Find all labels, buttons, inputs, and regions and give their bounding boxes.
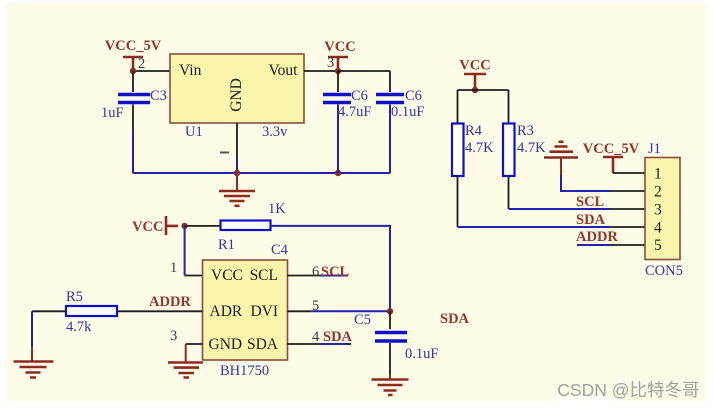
wire Vout to VCC node xyxy=(304,70,338,72)
junction at C6 bottom / rail xyxy=(335,170,341,176)
capacitor C6 (0.1uF) xyxy=(376,71,424,173)
svg-text:3: 3 xyxy=(654,201,662,218)
svg-text:CON5: CON5 xyxy=(645,263,683,279)
resistor R4 xyxy=(452,123,494,176)
svg-text:4: 4 xyxy=(312,329,320,345)
ground symbol (C5) xyxy=(372,374,409,395)
power flag VCC (above C6) xyxy=(324,39,355,69)
svg-text:1: 1 xyxy=(654,166,662,183)
svg-text:GND: GND xyxy=(209,336,243,353)
junction VCC / R4 R3 xyxy=(472,87,478,93)
svg-text:R3: R3 xyxy=(517,123,534,139)
wire VCC junction down to pin1 xyxy=(184,226,186,276)
svg-text:3.3v: 3.3v xyxy=(262,124,288,140)
svg-text:VCC: VCC xyxy=(324,39,355,55)
connector pins J1 (stubs) xyxy=(610,191,645,245)
ground symbol (rotated, at J1 pin2) xyxy=(544,142,610,191)
svg-text:3: 3 xyxy=(327,55,334,71)
wire U1 GND pin down xyxy=(236,123,238,158)
wire R3 bottom to J1 pin3 xyxy=(508,176,510,209)
svg-text:R4: R4 xyxy=(465,123,483,139)
svg-text:1K: 1K xyxy=(268,201,286,217)
power flag VCC (right section) xyxy=(459,58,490,89)
wire VCC to resistor tops xyxy=(458,90,509,123)
power flag VCC (BH1750 section, rotated) xyxy=(132,216,178,235)
svg-text:0.1uF: 0.1uF xyxy=(405,346,438,362)
connector J1 xyxy=(645,141,683,279)
svg-text:4.7K: 4.7K xyxy=(517,140,546,156)
pin 6 wire and SCL xyxy=(288,275,321,277)
svg-text:4.7uF: 4.7uF xyxy=(338,104,371,120)
svg-text:C4: C4 xyxy=(271,242,289,258)
svg-text:C6: C6 xyxy=(351,88,368,104)
wire R1 right to C5 junction xyxy=(271,226,391,311)
power flag VCC_5V (top left) xyxy=(105,38,162,69)
svg-text:VCC: VCC xyxy=(211,267,243,284)
junction C5 / DVI xyxy=(387,308,393,314)
wire R4 bottom to J1 pin4 xyxy=(457,176,459,227)
junction at U1 GND / rail xyxy=(234,170,240,176)
svg-text:ADDR: ADDR xyxy=(576,229,618,245)
wire stub ADDR to J1 pin5 xyxy=(577,244,610,246)
ground rail wire (bottom of regulator section) xyxy=(133,172,390,174)
svg-text:SCL: SCL xyxy=(576,194,605,210)
svg-text:DVI: DVI xyxy=(250,303,278,320)
svg-text:2: 2 xyxy=(654,183,662,200)
wire VCC_5V to Vin xyxy=(133,70,170,72)
wire VCC junction to R1 xyxy=(185,225,221,227)
svg-text:VCC_5V: VCC_5V xyxy=(105,38,162,54)
regulator U1 xyxy=(170,54,304,140)
svg-text:0.1uF: 0.1uF xyxy=(391,104,424,120)
svg-text:C5: C5 xyxy=(354,312,371,328)
svg-text:1uF: 1uF xyxy=(101,105,124,121)
capacitor C5 xyxy=(354,311,438,374)
resistor R1 xyxy=(218,201,286,253)
svg-text:ADDR: ADDR xyxy=(149,294,191,310)
svg-text:GND: GND xyxy=(228,78,245,112)
svg-text:Vout: Vout xyxy=(268,62,298,79)
resistor R5 xyxy=(66,289,117,335)
svg-text:ADR: ADR xyxy=(210,303,243,320)
svg-text:Vin: Vin xyxy=(179,62,202,79)
svg-text:3: 3 xyxy=(170,328,177,344)
resistor R3 xyxy=(503,123,546,176)
svg-text:4.7K: 4.7K xyxy=(465,140,494,156)
capacitor C3 xyxy=(101,71,167,173)
svg-text:U1: U1 xyxy=(185,124,203,140)
power flag VCC_5V (at J1 pin1) xyxy=(583,141,640,173)
junction VCC / R1 / U pin1 xyxy=(181,223,187,229)
svg-text:VCC_5V: VCC_5V xyxy=(583,141,640,157)
svg-text:R1: R1 xyxy=(218,237,235,253)
svg-text:2: 2 xyxy=(138,56,145,72)
ground symbol (BH1750 GND) xyxy=(168,363,203,378)
pin 4 wire and SDA xyxy=(288,343,321,345)
capacitor C6 (4.7uF) xyxy=(323,71,371,173)
svg-text:5: 5 xyxy=(654,237,662,254)
svg-text:6: 6 xyxy=(312,264,319,280)
svg-text:VCC: VCC xyxy=(459,58,490,74)
svg-text:SCL: SCL xyxy=(250,267,278,284)
wire GND pin to ground xyxy=(186,343,203,345)
sensor U BH1750 xyxy=(203,242,289,379)
pin dash marker on GND pin xyxy=(220,152,229,154)
svg-text:SCL: SCL xyxy=(321,264,350,280)
svg-text:C3: C3 xyxy=(150,88,167,104)
svg-text:SDA: SDA xyxy=(247,336,279,353)
svg-text:1: 1 xyxy=(170,260,177,276)
svg-text:4: 4 xyxy=(654,219,662,236)
svg-text:5: 5 xyxy=(312,298,319,314)
ground symbol (R5) xyxy=(14,347,54,378)
svg-text:J1: J1 xyxy=(648,141,661,157)
wire VCC_5V to J1 pin1 xyxy=(613,172,645,174)
svg-text:CSDN @比特冬哥: CSDN @比特冬哥 xyxy=(557,380,699,400)
svg-text:SDA: SDA xyxy=(576,212,606,228)
svg-text:C6: C6 xyxy=(405,88,422,104)
pin 5 wire (DVI) xyxy=(288,310,311,312)
svg-text:R5: R5 xyxy=(66,289,83,305)
wire R5 to ADR pin xyxy=(117,310,203,312)
junction node at C3 top xyxy=(130,68,136,74)
junction at Vout / C6 xyxy=(335,68,341,74)
svg-text:SDA: SDA xyxy=(323,329,353,345)
svg-text:BH1750: BH1750 xyxy=(220,363,269,379)
svg-text:4.7k: 4.7k xyxy=(66,319,92,335)
ground symbol under U1 xyxy=(219,173,255,206)
wire R5 left to ground xyxy=(32,310,66,312)
svg-text:VCC: VCC xyxy=(132,219,163,235)
watermark CSDN xyxy=(553,396,617,404)
wire VCC node to C6b column xyxy=(338,70,390,72)
svg-text:SDA: SDA xyxy=(440,311,470,327)
